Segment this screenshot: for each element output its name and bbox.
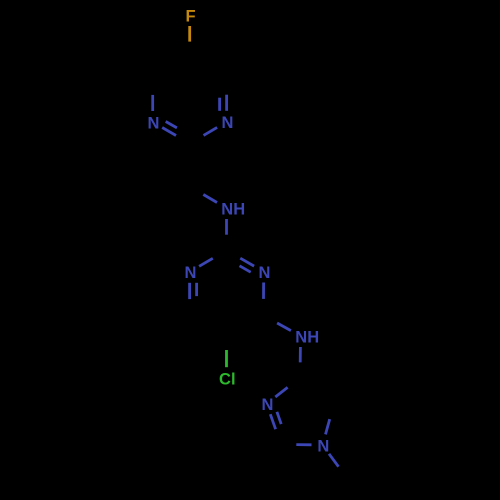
svg-text:Cl: Cl bbox=[219, 371, 236, 389]
svg-text:NH: NH bbox=[221, 200, 245, 218]
bond C4-N3 (imidazole) bbox=[275, 387, 287, 397]
bond NH-C4 (to imidazole) bbox=[299, 347, 302, 362]
bond C2-CH2 (linker, C-C invisible) bbox=[0, 0, 1, 1]
bond C4-NH (to imidazole NH) bbox=[277, 323, 291, 331]
bond C5=C6 (upper ring, C-C invisible) bbox=[0, 0, 1, 1]
bond C4-C5 (upper ring, C-C invisible) bbox=[0, 0, 1, 1]
bond C5=C4 (lower ring, C-C invisible) bbox=[0, 0, 1, 1]
bond F-C5 (upper ring) bbox=[188, 26, 191, 42]
bond N1=C2 (upper ring) bbox=[162, 122, 177, 136]
bond N3=C2 (lower ring) bbox=[240, 258, 255, 272]
bond N1=C6 (lower ring) bbox=[190, 283, 197, 299]
bond C5-Cl bbox=[225, 350, 228, 367]
bond N3=C2 (imidazole) bbox=[270, 412, 281, 429]
bond NH-C2 (to lower ring) bbox=[225, 219, 228, 235]
bond CH2-NH (linker) bbox=[203, 195, 217, 203]
bond C4=C5 (imidazole, C-C invisible) bbox=[0, 0, 1, 1]
svg-text:N: N bbox=[317, 437, 329, 455]
bond C2-N1 (imidazole) bbox=[296, 443, 311, 446]
bond N3=C4 (upper ring) bbox=[220, 95, 227, 111]
svg-text:NH: NH bbox=[295, 328, 319, 346]
bond C2-N1 (lower ring) bbox=[199, 258, 213, 266]
bond N1-C5 (imidazole) bbox=[326, 419, 330, 434]
svg-text:N: N bbox=[221, 114, 233, 132]
svg-text:N: N bbox=[184, 264, 196, 282]
svg-text:N: N bbox=[261, 396, 273, 414]
bond C4-N3 (lower ring) bbox=[262, 283, 265, 299]
svg-text:N: N bbox=[148, 114, 160, 132]
bond C6-N1 (upper ring) bbox=[151, 95, 154, 111]
bond C6-C5 (lower ring, C-C invisible) bbox=[0, 0, 1, 1]
bond C2-N3 (upper ring) bbox=[204, 127, 218, 135]
svg-text:F: F bbox=[186, 7, 196, 25]
bond N1-CH3 (N-methyl) bbox=[329, 454, 339, 467]
svg-text:N: N bbox=[259, 264, 271, 282]
